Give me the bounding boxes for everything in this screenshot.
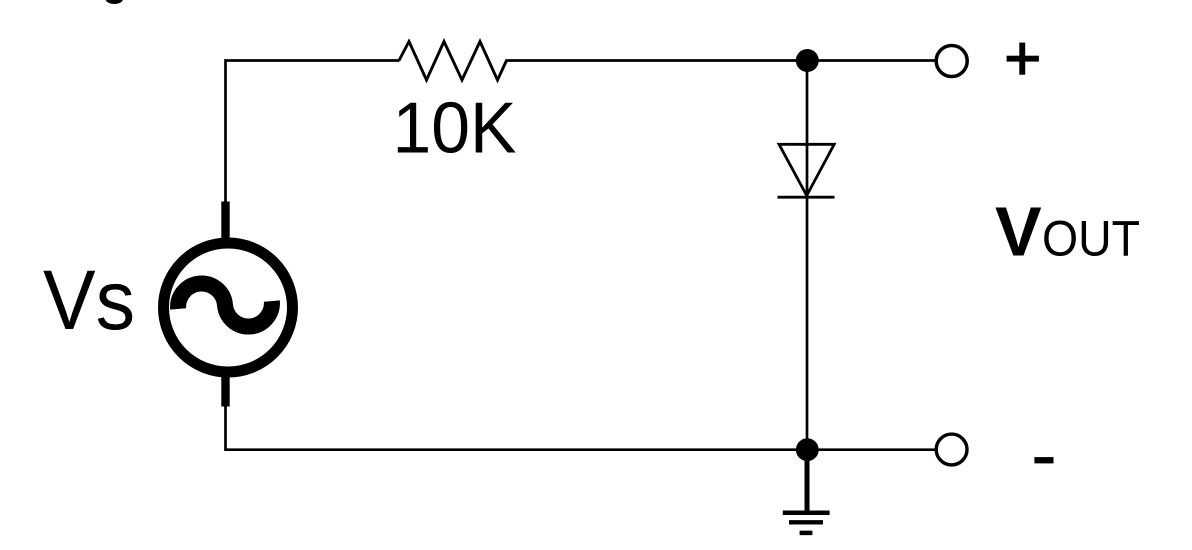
source circle: [164, 243, 293, 372]
wire left vertical + top-left horizontal: [226, 61, 400, 205]
svg-text:OUT: OUT: [1042, 211, 1140, 267]
wire right vertical branch: [806, 61, 809, 450]
source stub bottom: [221, 376, 229, 407]
minus sign label: [1034, 457, 1053, 463]
terminal + (open circle): [936, 46, 967, 77]
cropped glyph fragment top-left: [105, 0, 123, 4]
source VS (AC): [164, 202, 293, 407]
node bottom junction: [796, 438, 819, 461]
svg-text:V: V: [995, 193, 1042, 271]
sine wave: [176, 278, 274, 333]
svg-text:Vs: Vs: [43, 253, 135, 347]
resistor R1 10K: [399, 42, 507, 81]
wire bottom left vertical + bottom horizontal: [226, 406, 937, 450]
plus sign label: [1007, 43, 1039, 75]
node top junction: [796, 49, 819, 72]
terminal - (open circle): [936, 434, 967, 465]
source stub top: [221, 202, 229, 241]
diode D1: [778, 144, 835, 197]
ground: [783, 450, 830, 533]
wire top horizontal to + terminal: [506, 59, 937, 62]
svg-text:10K: 10K: [393, 89, 517, 169]
